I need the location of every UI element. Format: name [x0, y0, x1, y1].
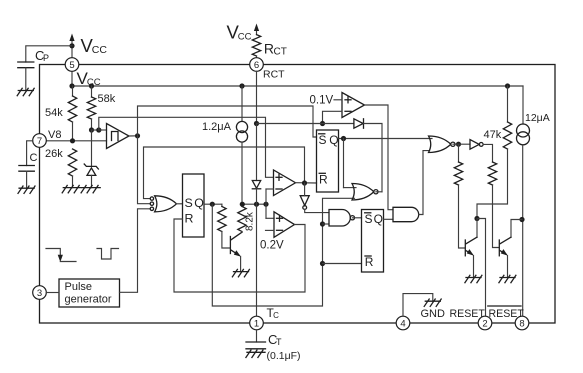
wire VCC to capacitor CP: [26, 46, 72, 62]
node: C2 output: [302, 180, 307, 185]
wire FF-A Q loop to gates: [212, 198, 354, 306]
ground (CT): [246, 350, 265, 357]
current source 1.2uA: [236, 86, 247, 204]
comparator C1: [342, 93, 365, 118]
label FF-A Q: [194, 196, 204, 210]
svg-text:1.2μA: 1.2μA: [202, 121, 232, 133]
wire zener to ground: [91, 175, 93, 187]
svg-text:S: S: [185, 196, 193, 210]
label TC: [267, 306, 280, 320]
wire pin5 into chip: [71, 71, 73, 86]
wire RC junction bus: [242, 203, 266, 205]
label RCT external: [264, 41, 287, 58]
ground (GND pin): [424, 299, 441, 306]
diode D2: [252, 181, 260, 189]
wire RCT node to diode D2: [256, 124, 258, 181]
wire R1 to Q3 base: [222, 232, 230, 249]
svg-text:V8: V8: [48, 129, 61, 141]
wire pin3 to pulse generator: [46, 292, 59, 294]
node: reference riser: [96, 127, 101, 132]
svg-text:R: R: [264, 41, 274, 57]
wire 26k to ground: [72, 176, 74, 188]
label RESET bar: [488, 306, 525, 320]
pin 8: [515, 316, 529, 330]
resistor R1 (base): [218, 204, 226, 231]
IC package outline box: [40, 65, 556, 324]
wire RC node line with diode D1: [257, 123, 354, 125]
label FF2 Rbar: [365, 255, 374, 269]
node: FF-A Q branch: [210, 202, 215, 207]
label 47k: [484, 129, 502, 141]
flip-flop FF1 box: [317, 130, 339, 192]
capacitor CP: [18, 62, 34, 68]
wire D1 to gate G2 output: [364, 124, 383, 192]
wire 0.2V stub to C3 minus: [266, 229, 275, 231]
capacitor C (pin 7): [19, 166, 34, 172]
node: rail/47k: [505, 83, 510, 88]
svg-text:54k: 54k: [45, 107, 63, 119]
inverter G4: [300, 196, 309, 210]
svg-text:5: 5: [69, 60, 74, 71]
resistor 58k: [87, 86, 95, 130]
wire junction to comparator C3 plus: [266, 217, 274, 219]
svg-text:Q: Q: [329, 133, 338, 147]
resistor R3: [488, 162, 496, 185]
wire reference line to comparator C2 plus: [99, 117, 274, 177]
diode D1: [354, 119, 364, 128]
wire FF-A Q output line: [204, 203, 222, 205]
waveform glyph step-down with arrow: [46, 249, 76, 263]
label FF2 Sbar: [365, 212, 373, 226]
capacitor CT: [246, 342, 266, 349]
wire C2 minus riser to junction: [266, 189, 274, 218]
gate G6 (NOR): [429, 136, 456, 153]
label 12uA: [525, 112, 550, 124]
wire D2 to pin 1 (TC): [256, 189, 258, 316]
wire loop to FF2 reset: [323, 263, 362, 265]
resistor 47k: [503, 86, 511, 149]
wire pin4 to ground symbol: [403, 294, 433, 317]
wire R3 to Q2 base: [493, 185, 499, 248]
svg-text:C: C: [30, 152, 38, 164]
node: FF1 Q: [341, 136, 346, 141]
label FF1 Q: [329, 133, 338, 147]
inverter G7: [470, 140, 483, 150]
svg-text:12μA: 12μA: [525, 112, 550, 124]
wire node to pin 2: [477, 219, 486, 317]
node: rail/1.2uA: [239, 83, 244, 88]
wire G1 output to FF-A set: [177, 203, 183, 205]
node: loop/FF2 reset: [320, 261, 325, 266]
pin 5: [65, 58, 79, 72]
wire pin7 to capacitor C: [27, 141, 33, 166]
svg-text:P: P: [43, 53, 49, 63]
node: C1 minus tap: [320, 121, 325, 126]
svg-text:0.1V: 0.1V: [310, 95, 334, 107]
svg-text:8: 8: [519, 318, 524, 329]
resistor 8.2k: [238, 204, 246, 232]
svg-text:RESET: RESET: [450, 308, 486, 320]
flip-flop FF2 box: [362, 210, 384, 273]
node: Q1 collector node: [474, 216, 479, 221]
ground (zener): [81, 185, 100, 192]
svg-text:S: S: [365, 212, 373, 226]
node: loop/NAND input: [320, 221, 325, 226]
label FF2 Q: [374, 212, 383, 226]
node: rail/54k: [69, 83, 74, 88]
svg-text:Q: Q: [374, 212, 383, 226]
buffer U1 with hysteresis: [107, 124, 130, 149]
svg-text:GND: GND: [421, 308, 446, 320]
label CT: [268, 332, 282, 347]
label V8: [48, 129, 61, 141]
power symbol VCC (RCT pull-up arrow): [254, 24, 259, 35]
pin 4: [396, 316, 410, 330]
label 8.2k: [245, 211, 256, 231]
svg-text:CC: CC: [238, 32, 252, 43]
transistor Q3: [230, 232, 242, 256]
wire G3 output to FF2 set: [352, 217, 361, 219]
wire G6 output to inverter G7: [453, 143, 470, 145]
label C: [30, 152, 38, 164]
gate G1 (negated-input OR): [150, 196, 176, 212]
label 1.2uA: [202, 121, 232, 133]
label RESET: [450, 308, 486, 320]
node: junction TC line: [254, 202, 259, 207]
ground (Q3): [232, 269, 249, 276]
svg-text:R: R: [319, 172, 328, 186]
node: junction 1.2uA/8.2k: [240, 202, 245, 207]
wire loop to NAND G3 input: [323, 223, 330, 225]
resistor R2: [454, 144, 462, 185]
gate G5 (AND): [393, 207, 419, 221]
svg-text:8.2k: 8.2k: [245, 211, 256, 231]
wire C2 output: [296, 182, 317, 184]
resistor RCT (external): [252, 35, 260, 58]
power symbol VCC (pin 5 supply arrow): [69, 34, 74, 46]
svg-text:RCT: RCT: [263, 69, 285, 81]
pin 1: [250, 316, 264, 330]
node: VCC/CP junction: [69, 43, 74, 48]
wire comparator C2 feedback to gate G1: [144, 147, 305, 199]
ground (Q1): [465, 275, 482, 282]
node: V8 divider tap: [70, 138, 75, 143]
svg-text:generator: generator: [65, 294, 112, 306]
wire U1 output feedback to FF1 set: [138, 106, 317, 137]
wire zener top: [91, 130, 93, 166]
label CT value: [267, 350, 301, 362]
label Pulse: [65, 281, 93, 293]
label VCC at RCT: [227, 22, 252, 43]
pin 7: [33, 134, 47, 148]
svg-text:Q: Q: [194, 196, 204, 210]
wire U1 output down to gate G1 input: [138, 136, 151, 204]
svg-text:T: T: [276, 337, 282, 347]
label CP: [35, 48, 49, 63]
wire C2 output to inverter G4: [304, 183, 306, 196]
wire 58k node to buffer upper input: [99, 129, 107, 131]
svg-text:58k: 58k: [98, 93, 116, 105]
wire Q3 emitter to ground: [240, 256, 242, 271]
svg-text:47k: 47k: [484, 129, 502, 141]
wire FF1 Q output: [339, 138, 433, 140]
wire FF2 Q to gate G5: [384, 218, 394, 220]
svg-text:(0.1μF): (0.1μF): [267, 350, 301, 362]
node: U1 output: [135, 133, 140, 138]
svg-text:CC: CC: [92, 44, 108, 56]
wire FF1 Q to gate G2: [344, 139, 357, 188]
wire Q1 emitter to ground: [473, 256, 475, 278]
wire 0.1V to C1 plus: [334, 99, 342, 101]
svg-text:C: C: [273, 311, 279, 320]
transistor Q2: [499, 237, 511, 256]
zener diode D3: [84, 164, 98, 175]
svg-text:S: S: [319, 133, 327, 147]
label 54k: [45, 107, 63, 119]
node: rail/58k: [89, 83, 94, 88]
wire C1 output to gate G5: [365, 105, 394, 210]
label generator: [65, 294, 112, 306]
label 0.2V: [260, 239, 284, 251]
ground (Q2): [499, 275, 516, 282]
label 58k: [98, 93, 116, 105]
transistor Q1: [465, 237, 477, 256]
label GND: [421, 308, 446, 320]
flip-flop FF-A box: [183, 174, 205, 237]
node: G6 output: [456, 142, 461, 147]
label VCC internal rail: [77, 69, 101, 88]
waveform glyph negative pulse: [97, 249, 119, 260]
svg-text:26k: 26k: [45, 148, 63, 160]
node: junction comparator taps: [263, 202, 268, 207]
comparator C3: [274, 212, 295, 238]
svg-text:3: 3: [37, 288, 42, 299]
svg-text:4: 4: [400, 318, 405, 329]
pulse generator box: [59, 279, 120, 307]
wire node down to Q1 collector: [476, 219, 478, 238]
pin 2: [478, 316, 492, 330]
label FF1 Sbar: [319, 133, 327, 147]
pin 3: [33, 286, 47, 300]
wire pulse generator output to gate G1: [120, 209, 151, 292]
svg-text:7: 7: [37, 136, 42, 147]
svg-text:6: 6: [254, 60, 259, 71]
svg-text:1: 1: [254, 318, 259, 329]
wire U1 output: [129, 135, 138, 137]
label FF-A S: [185, 196, 193, 210]
wire pin1 to capacitor CT: [256, 330, 258, 342]
wire pin6 down to RC node: [256, 71, 258, 123]
wire 54k bottom to V8 node: [72, 122, 74, 141]
wire R2 to Q1 base: [459, 185, 465, 248]
ground (26k): [62, 185, 81, 192]
svg-text:Pulse: Pulse: [65, 281, 93, 293]
wire Q2 collector to 12uA line: [511, 220, 522, 238]
wire VCC rail: [72, 85, 523, 87]
wire V8 line: [46, 140, 106, 142]
wire G2 output riser: [376, 191, 382, 193]
wire 47k to Q1 collector node: [477, 149, 508, 219]
ground (C): [18, 186, 35, 193]
svg-text:0.2V: 0.2V: [260, 239, 284, 251]
label 26k: [45, 148, 63, 160]
label 0.1V: [310, 95, 334, 107]
wire G7 output to R3: [483, 144, 492, 162]
comparator C2: [274, 170, 296, 196]
svg-text:RESET: RESET: [489, 308, 525, 320]
label VCC top-left: [81, 35, 108, 56]
wire 58k to reference riser: [92, 129, 99, 131]
label FF1 Rbar: [319, 172, 328, 186]
wire C3 output loop to FF-A reset: [174, 219, 305, 292]
wire C1 minus to RC node: [323, 111, 343, 123]
svg-text:2: 2: [482, 318, 487, 329]
gate G3 (NAND): [329, 210, 355, 227]
wire CP to ground: [25, 68, 27, 91]
svg-text:R: R: [365, 255, 374, 269]
wire Q2 emitter to ground: [507, 256, 509, 278]
node: 58k bottom: [89, 127, 94, 132]
wire G4 output to NAND G3: [305, 209, 329, 212]
wire G5 output riser to G6: [419, 151, 430, 215]
pin 6: [250, 58, 264, 72]
current source 12uA: [517, 86, 530, 316]
svg-text:R: R: [185, 212, 194, 226]
label RCT internal: [263, 69, 285, 81]
wire pin5 to VCC arrow: [71, 46, 73, 58]
wire C to ground: [26, 171, 28, 188]
resistor 54k: [68, 86, 76, 122]
node: RCT sense: [254, 121, 259, 126]
resistor 26k: [68, 149, 76, 176]
ground (CP): [17, 88, 34, 95]
svg-text:CT: CT: [274, 47, 287, 58]
label FF-A R: [185, 212, 194, 226]
gate G2 (NOR): [352, 184, 378, 201]
node: Q2 collector node: [519, 217, 524, 222]
